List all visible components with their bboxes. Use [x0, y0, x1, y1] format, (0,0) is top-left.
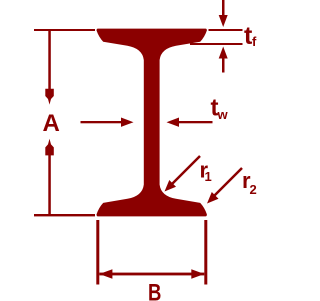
r_1: arrowhead: [165, 180, 177, 192]
r_2: arrowhead: [207, 192, 219, 204]
t_f: top stem: [222, 0, 225, 16]
dimension A: bottom tick: [34, 214, 95, 216]
svg-text:1: 1: [205, 169, 212, 184]
t_w: right arrow line: [179, 121, 213, 123]
svg-text:2: 2: [250, 182, 257, 197]
dimension A: top tick: [34, 29, 95, 31]
r_2: leader line: [214, 168, 243, 197]
I-beam cross-section body: [97, 29, 207, 217]
dimension B: right tick: [204, 220, 207, 285]
t_w: left arrow line: [81, 121, 122, 123]
t_f: lower stem: [222, 58, 225, 73]
r_1: leader line: [172, 156, 201, 185]
dimension A: upper arrowhead (down): [45, 89, 54, 105]
svg-text:w: w: [217, 107, 229, 122]
dimension A: upper line: [48, 31, 51, 89]
dimension B: right arrowhead: [191, 269, 204, 278]
dimension B: line: [99, 273, 204, 276]
dimension B: left tick: [96, 220, 99, 285]
dimension B: left arrowhead: [99, 269, 112, 278]
svg-text:f: f: [252, 34, 257, 49]
t_f: lower arrowhead (up): [219, 47, 228, 59]
t_f: top arrowhead (down): [219, 15, 228, 27]
dimension A: lower arrowhead (up): [45, 139, 54, 156]
svg-text:A: A: [43, 110, 60, 137]
svg-text:B: B: [148, 280, 161, 301]
t_f: lower extension line: [190, 43, 243, 45]
t_w: left arrowhead (right): [121, 118, 134, 127]
t_w: right arrowhead (left): [167, 118, 180, 127]
dimension A: lower line: [48, 155, 51, 214]
t_f: upper extension line: [209, 29, 243, 31]
